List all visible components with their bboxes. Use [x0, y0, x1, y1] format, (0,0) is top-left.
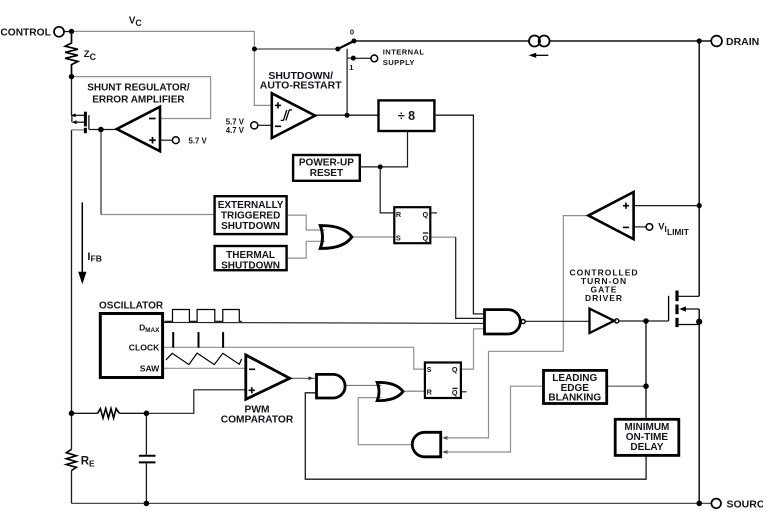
- comparator U2 shutdown auto-restart: [272, 93, 315, 138]
- wire AND1 output to OR2 top input: [345, 384, 382, 386]
- wire gate node riser down to MINIMUM ON-TIME DELAY: [645, 321, 647, 418]
- wire OR1 output to latch1 S input: [352, 236, 395, 238]
- node dot sense node right: [144, 411, 150, 417]
- wire ILIMIT comparator minus stub to terminal: [634, 226, 647, 228]
- comparator U4 current limit: [588, 192, 633, 239]
- wire latch2 Qbar stub: [462, 391, 467, 393]
- wire contact 1 to INTERNAL SUPPLY terminal: [355, 57, 371, 59]
- svg-text:S: S: [427, 365, 432, 374]
- svg-text:Q: Q: [452, 388, 458, 397]
- svg-text:Q: Q: [452, 365, 458, 374]
- wire THERMAL SHUTDOWN output to OR1 bottom input: [288, 241, 325, 258]
- comparator U5 PWM: [246, 355, 290, 399]
- wire left rail from shunt MOSFET source to R_E: [71, 130, 73, 449]
- wire latch1 Qbar to NAND input 2: [431, 236, 455, 238]
- box THERMAL SHUTDOWN: [215, 246, 287, 270]
- wire shunt feedback loop to error amp minus input: [72, 77, 211, 119]
- gate NAND G2: [485, 310, 521, 334]
- transistor Q2 source lead: [679, 324, 700, 326]
- wire CONTROL terminal stub: [64, 31, 72, 33]
- wire shunt node riser: [100, 130, 102, 215]
- capacitor C1 plates: [139, 455, 156, 457]
- resistor Z_C: [65, 31, 78, 76]
- gate AND2 mirrored: [412, 432, 440, 457]
- wire drain rail vertical: [698, 41, 700, 296]
- transistor Q2 output MOSFET gate line: [668, 296, 670, 321]
- box divide-by-8: [379, 100, 435, 131]
- gate driver buffer G3: [590, 309, 615, 333]
- gate OR1 shutdown: [320, 226, 352, 249]
- wire shunt node to EXTERNALLY TRIGGERED SHUTDOWN: [101, 214, 213, 216]
- node dot Z_C bottom junction: [69, 74, 74, 79]
- node dot MOSFET source: [696, 319, 702, 325]
- transistor Q2 body arrow: [684, 308, 699, 310]
- svg-text:R: R: [427, 388, 433, 397]
- svg-text:IFB: IFB: [87, 251, 102, 264]
- node dot capacitor bottom: [144, 501, 150, 507]
- current source CS1: [529, 36, 540, 47]
- wire left rail from Z_C junction to MOSFET gate: [71, 77, 73, 116]
- svg-text:SAW: SAW: [140, 363, 160, 373]
- wire MOSFET source rail vertical: [698, 309, 700, 503]
- wire ETS output to OR1 top input: [288, 215, 325, 230]
- wire NAND output to gate driver: [525, 320, 590, 322]
- wire POWER-UP RESET output to divide-by-8 bottom: [361, 130, 408, 167]
- svg-text:EXTERNALLY: EXTERNALLY: [218, 200, 284, 211]
- svg-text:SHUNT REGULATOR/: SHUNT REGULATOR/: [87, 82, 190, 93]
- arrowhead into AND2 top input: [442, 436, 448, 440]
- terminal 5.7V 4.7V threshold: [251, 122, 258, 129]
- transistor Q1 gate arrow 2: [76, 121, 85, 123]
- wire gate driver output to MOSFET gate: [619, 320, 669, 322]
- svg-text:R: R: [396, 210, 402, 219]
- wire capacitor leads: [145, 413, 147, 454]
- switch contact 0 dot: [351, 39, 356, 44]
- svg-text:Q: Q: [423, 210, 429, 219]
- wire branch to latch1 R input: [380, 167, 393, 213]
- node dot gate drive: [643, 318, 649, 324]
- svg-text:ERROR AMPLIFIER: ERROR AMPLIFIER: [92, 95, 185, 106]
- waveform SAW triangle: [166, 353, 242, 365]
- box OSCILLATOR: [100, 314, 162, 378]
- op-amp U1 shunt regulator error amplifier: [117, 107, 160, 152]
- latch U3 shutdown S-R: [394, 207, 430, 243]
- terminal CONTROL: [54, 27, 64, 37]
- wire divide-by-8 output to NAND input 1: [436, 115, 485, 314]
- transistor Q1 gate arrow connector: [71, 115, 73, 122]
- wire V_C rail from CONTROL junction to shutdown branch: [72, 30, 255, 32]
- transistor Q1 shunt MOSFET channel bars: [84, 112, 87, 127]
- terminal 5.7V at error amp: [172, 137, 179, 144]
- wire PWM comparator output to AND1 top input: [290, 377, 316, 379]
- waveform CLOCK spikes: [173, 333, 224, 348]
- svg-text:SHUTDOWN: SHUTDOWN: [221, 261, 280, 272]
- terminal DRAIN: [711, 36, 722, 47]
- wire bottom source rail: [72, 502, 712, 504]
- svg-text:RESET: RESET: [310, 168, 343, 179]
- svg-text:POWER-UP: POWER-UP: [299, 158, 354, 169]
- latch U6 PWM S-R: [425, 363, 461, 399]
- transistor Q1 gate arrow 1: [75, 114, 85, 116]
- svg-text:TRIGGERED: TRIGGERED: [221, 210, 280, 221]
- svg-text:AUTO-RESTART: AUTO-RESTART: [260, 80, 342, 92]
- node I_FB annotation arrow: [81, 202, 83, 277]
- svg-text:COMPARATOR: COMPARATOR: [221, 414, 294, 425]
- box POWER-UP RESET: [293, 155, 360, 181]
- wire horizontal resistor leads: [72, 412, 98, 414]
- transistor Q2 channel bars: [675, 291, 678, 302]
- wire ILIMIT comparator output to mirrored AND gate top input: [444, 216, 588, 438]
- switch contact 1 dot: [351, 56, 356, 61]
- terminal V_ILIMIT: [646, 224, 653, 231]
- wire error amp plus stub to 5.7V terminal: [160, 139, 172, 141]
- svg-text:0: 0: [350, 28, 354, 37]
- box MINIMUM ON-TIME DELAY: [615, 419, 679, 455]
- wire latch2 Q to NAND input 4: [462, 329, 485, 369]
- node dot error amp input node: [98, 127, 104, 133]
- arrowhead into AND2 bottom input: [442, 450, 448, 454]
- wire AND2 output to OR2 bottom input: [358, 398, 412, 445]
- wire switch pole feed: [254, 48, 337, 50]
- wire shutdown comparator minus stub: [258, 124, 272, 126]
- svg-text:BLANKING: BLANKING: [548, 393, 601, 404]
- wire switch lever: [338, 41, 354, 49]
- switch pole dot: [335, 47, 340, 52]
- svg-text:CONTROL: CONTROL: [0, 27, 50, 38]
- svg-text:S: S: [396, 234, 401, 243]
- wire LEADING EDGE BLANKING right connection: [607, 385, 646, 387]
- node dot CONTROL junction: [69, 29, 74, 34]
- svg-text:Q: Q: [423, 234, 429, 243]
- svg-text:SUPPLY: SUPPLY: [383, 58, 415, 67]
- transistor Q1 drain line: [88, 115, 90, 129]
- resistor horizontal at sense node: [98, 409, 120, 419]
- svg-text:OSCILLATOR: OSCILLATOR: [99, 301, 164, 312]
- svg-text:CLOCK: CLOCK: [129, 343, 160, 353]
- wire sense node to PWM comparator plus input: [146, 390, 245, 414]
- wire ILIMIT comparator plus input: [634, 205, 700, 207]
- wire V_C drop to shutdown comparator plus input: [254, 31, 271, 105]
- wire DMAX line to NAND input 3: [164, 322, 485, 323]
- wire error amp output node: [89, 129, 117, 131]
- node dot POWER-UP RESET branch: [378, 164, 383, 169]
- svg-text:DRIVER: DRIVER: [585, 293, 623, 303]
- wire CLOCK line to latch2 S input: [164, 347, 424, 369]
- wire LEADING EDGE BLANKING output to AND2 bottom input: [444, 386, 542, 452]
- wire top drain rail right of current source: [550, 40, 712, 42]
- wire MINIMUM ON-TIME DELAY output to AND1 bottom input: [305, 393, 646, 479]
- transistor Q1 source lead: [72, 129, 85, 131]
- node dot LEB right: [643, 383, 649, 389]
- node dot source rail junction: [697, 501, 703, 507]
- resistor R_E: [66, 449, 76, 470]
- svg-text:SOURCE: SOURCE: [727, 498, 763, 510]
- box EXTERNALLY TRIGGERED SHUTDOWN: [215, 196, 287, 234]
- node dot V_C switch branch: [252, 47, 257, 52]
- box LEADING EDGE BLANKING: [544, 370, 607, 403]
- svg-text:SHUTDOWN: SHUTDOWN: [221, 221, 280, 232]
- transistor Q2 drain lead: [679, 295, 700, 297]
- comparator U2 hysteresis symbol: [281, 110, 292, 121]
- svg-text:5.7 V: 5.7 V: [189, 136, 208, 145]
- terminal INTERNAL SUPPLY: [371, 55, 378, 62]
- gate AND1 PWM: [317, 374, 346, 398]
- current source arrow: [534, 54, 548, 56]
- svg-text:INTERNAL: INTERNAL: [383, 48, 425, 57]
- svg-text:VC: VC: [129, 15, 143, 28]
- svg-text:1: 1: [349, 63, 353, 72]
- waveform DMAX square wave: [165, 310, 242, 322]
- wire top drain rail left of current source: [354, 40, 529, 42]
- wire stub switch contact 1: [347, 57, 351, 59]
- svg-text:4.7 V: 4.7 V: [226, 126, 245, 135]
- node dot drain terminal junction: [697, 38, 702, 43]
- node dot comparator output branch: [345, 113, 350, 118]
- wire shutdown comparator output to divide-by-8: [315, 114, 378, 116]
- node dot sense node left: [69, 411, 75, 417]
- wire latch1 Q stub: [431, 212, 437, 214]
- svg-text:DRAIN: DRAIN: [726, 36, 759, 48]
- svg-text:THERMAL: THERMAL: [226, 250, 275, 261]
- gate OR2: [377, 382, 403, 400]
- svg-text:DELAY: DELAY: [630, 442, 663, 453]
- wire SAW line to PWM comparator minus input: [164, 367, 246, 369]
- wire riser from comparator output to switch position 1: [346, 49, 348, 115]
- wire OR2 output to latch2 R input: [403, 390, 425, 392]
- wire left rail below R_E: [71, 470, 73, 503]
- node dot ILIMIT plus on drain rail: [697, 203, 702, 208]
- svg-text:÷ 8: ÷ 8: [398, 109, 415, 123]
- terminal SOURCE: [711, 499, 721, 509]
